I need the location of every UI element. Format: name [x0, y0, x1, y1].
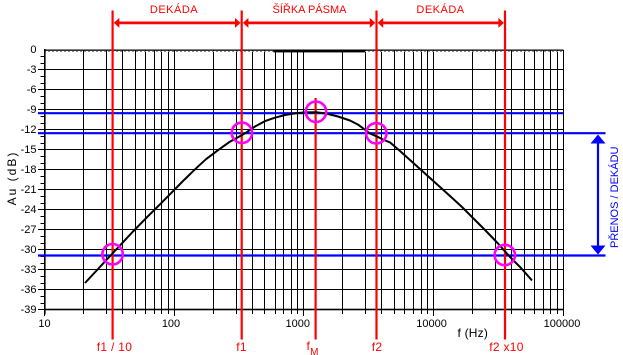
- y axis: [44, 49, 46, 315]
- x axis: [44, 309, 564, 311]
- magenta circle f1 point: [232, 123, 252, 143]
- y label -18: [0, 164, 37, 177]
- red arrow sirka pasma: [247, 21, 370, 24]
- ideal 0dB flat segment: [274, 50, 366, 53]
- y label -12: [0, 124, 37, 137]
- chart top border 0 dB line: [44, 50, 564, 51]
- y label -3: [0, 64, 37, 77]
- red arrow dekada left: [118, 21, 236, 24]
- y label -6: [0, 84, 37, 97]
- red marker line f1/10: [111, 11, 113, 340]
- blue line -3dB level: [38, 132, 606, 134]
- red label DEKADA left: [150, 5, 198, 16]
- y label -33: [0, 264, 37, 277]
- magenta circle f2x10 point: [495, 245, 515, 265]
- x label 100: [131, 319, 211, 330]
- red marker line f2x10: [504, 11, 506, 340]
- y label -39: [0, 304, 37, 317]
- y label -27: [0, 224, 37, 237]
- red arrow dekada right: [382, 21, 499, 24]
- x label 100000: [522, 319, 602, 330]
- red marker line f1: [241, 11, 243, 340]
- y label -36: [0, 284, 37, 297]
- red label DEKADA right: [416, 5, 464, 16]
- x-axis ticks below axis: [45, 309, 564, 316]
- frequency response curve: [85, 112, 532, 283]
- x axis title f (Hz): [458, 326, 489, 340]
- red label SIRKA PASMA: [273, 5, 347, 16]
- y-axis minor ticks every 1 dB: [41, 57, 45, 304]
- magenta circle f2 point: [366, 123, 386, 143]
- red marker line fM: [315, 98, 317, 340]
- red label f1: [236, 341, 247, 353]
- y label -9: [0, 104, 37, 117]
- grid: vertical log gridlines: [84, 50, 564, 309]
- magenta circle f1/10 point: [102, 244, 122, 264]
- y label -15: [0, 144, 37, 157]
- red marker line f2: [375, 11, 377, 340]
- blue label PRENOS/DEKADU: [609, 150, 621, 248]
- y label -24: [0, 204, 37, 217]
- red label fM: [307, 340, 319, 354]
- y axis title Au (dB): [5, 143, 19, 213]
- red label f2: [372, 341, 383, 353]
- y label -30: [0, 244, 37, 257]
- x label 10000: [392, 319, 472, 330]
- grid: horizontal 3dB gridlines: [38, 70, 563, 310]
- y label -21: [0, 184, 37, 197]
- blue line peak level -9.5dB: [38, 112, 563, 114]
- blue vertical double arrow prenos/dekadu: [597, 141, 599, 248]
- red label f2 x10: [489, 341, 524, 353]
- x label 10: [5, 319, 85, 330]
- magenta circle fM point: [306, 102, 326, 122]
- y label 0: [0, 44, 37, 57]
- blue line decade-down level: [38, 254, 606, 256]
- dotted gray 0 dB gridline: [44, 51, 563, 53]
- x label 1000: [258, 319, 338, 330]
- red label f1/10: [97, 341, 132, 353]
